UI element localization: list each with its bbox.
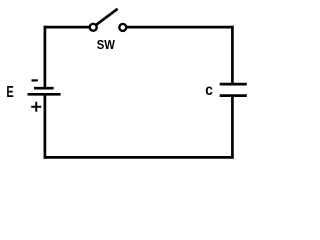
- svg-text:SW: SW: [97, 38, 115, 52]
- capacitor C bottom plate: [220, 94, 247, 97]
- switch SW lever arm: [96, 9, 117, 25]
- plus sign at battery positive terminal: [31, 102, 41, 112]
- capacitor C top plate: [220, 83, 247, 86]
- battery E positive terminal (long plate): [28, 93, 61, 96]
- wire left lower segment: [44, 94, 47, 158]
- switch SW left contact circle: [90, 24, 97, 31]
- wire top-left segment: [44, 26, 90, 29]
- wire right lower segment: [231, 96, 234, 159]
- wire top-right segment: [127, 26, 234, 29]
- battery E negative terminal (short plate): [34, 87, 54, 90]
- svg-text:c: c: [205, 82, 213, 99]
- minus sign at battery negative terminal: [32, 79, 38, 81]
- wire right upper segment: [231, 26, 234, 84]
- svg-text:E: E: [6, 84, 14, 101]
- wire bottom segment: [44, 156, 234, 159]
- switch SW right contact circle: [119, 24, 126, 31]
- wire left upper segment: [44, 26, 47, 88]
